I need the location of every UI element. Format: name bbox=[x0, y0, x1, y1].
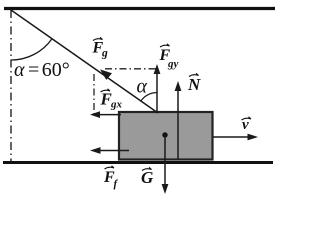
label Fgx bbox=[100, 89, 123, 111]
normal force N arrow bbox=[177, 85, 179, 159]
block (box) bbox=[119, 112, 213, 160]
svg-text:gx: gx bbox=[110, 99, 123, 111]
svg-text:g: g bbox=[101, 48, 108, 60]
label G bbox=[141, 167, 154, 187]
label Fg bbox=[92, 37, 109, 59]
force Fg arrowhead along rope bbox=[100, 69, 112, 80]
ground line bbox=[3, 161, 273, 164]
label Fgy bbox=[159, 44, 179, 70]
center of mass dot bbox=[162, 132, 167, 137]
friction Ff arrow bbox=[95, 150, 129, 152]
construction dash-dot horizontal (Fg tip to Fgy tip) bbox=[105, 68, 158, 70]
velocity v arrow bbox=[213, 136, 253, 138]
vertical dash-dot reference line bbox=[10, 10, 12, 161]
svg-text:N: N bbox=[187, 75, 201, 94]
force Fgx arrow bbox=[94, 114, 121, 116]
label v bbox=[242, 117, 252, 133]
angle arc alpha=60 bbox=[11, 39, 52, 60]
svg-text:α: α bbox=[137, 76, 148, 98]
rope (string at angle) bbox=[11, 10, 158, 113]
small angle arc alpha at block bbox=[141, 93, 157, 102]
gravity G arrow bbox=[164, 135, 166, 189]
ceiling wall line bbox=[4, 7, 275, 10]
svg-text:gy: gy bbox=[167, 58, 179, 70]
svg-text:G: G bbox=[141, 168, 154, 187]
label N bbox=[187, 73, 201, 94]
construction dash-dot vertical (Fg tip down to Fgx) bbox=[93, 74, 95, 115]
svg-text:α=60°: α=60° bbox=[14, 59, 70, 81]
label Ff bbox=[103, 166, 119, 190]
force Fgy arrow bbox=[156, 68, 158, 113]
